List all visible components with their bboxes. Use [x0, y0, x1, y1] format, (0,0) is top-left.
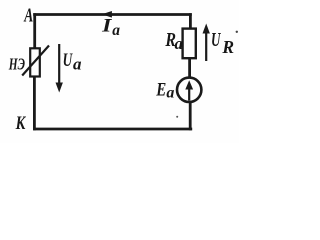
- svg-text:I: I: [101, 16, 112, 36]
- svg-text:U: U: [63, 51, 74, 71]
- svg-text:E: E: [155, 79, 166, 100]
- nonlinear element NE diagonal slash: [22, 46, 49, 76]
- EMF arrow inside Ea circle (up): [185, 80, 193, 100]
- wire left upper (A corner down to NE box): [33, 13, 36, 49]
- svg-text:a: a: [166, 84, 174, 101]
- wire right upper (top corner to resistor Ra): [189, 13, 192, 29]
- svg-text:A: A: [23, 5, 33, 27]
- svg-text:a: a: [73, 54, 82, 73]
- wire right middle (resistor Ra to source Ea): [188, 58, 191, 79]
- nonlinear element NE box: [30, 48, 40, 76]
- wire top (A to top-right corner): [33, 13, 192, 16]
- resistor Ra box: [183, 29, 196, 59]
- wire right lower (source Ea to bottom corner): [189, 102, 192, 131]
- paper speck lower left of source: [176, 116, 178, 118]
- voltage arrow UR (up, right of Ra): [203, 24, 210, 62]
- svg-text:НЭ: НЭ: [8, 54, 25, 73]
- current arrow Ia head (points left on top wire): [102, 11, 112, 18]
- svg-text:a: a: [112, 22, 120, 39]
- paper speck right edge: [236, 31, 238, 33]
- wire left lower (NE box to K corner): [33, 76, 36, 131]
- svg-text:К: К: [15, 114, 27, 134]
- EMF source Ea circle: [177, 78, 201, 102]
- svg-text:R: R: [221, 37, 234, 57]
- svg-text:a: a: [175, 34, 184, 53]
- wire bottom (K to bottom-right corner): [33, 128, 192, 131]
- voltage arrow Ua (down, beside NE): [56, 44, 63, 93]
- svg-text:U: U: [211, 30, 221, 51]
